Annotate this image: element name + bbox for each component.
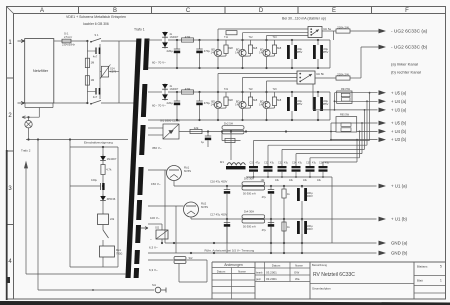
junction row1 cell2: [241, 39, 243, 41]
output +U3 (a): [379, 108, 387, 113]
svg-text:6k8: 6k8: [229, 98, 234, 102]
rectifier Gl2 4x1N4007: [164, 84, 166, 101]
svg-text:R94 5W: R94 5W: [341, 88, 351, 91]
wire output U3a row: [313, 109, 378, 111]
capacitor C12 plates: [196, 48, 202, 50]
svg-text:R95 5W: R95 5W: [340, 114, 350, 117]
svg-text:ZPD36: ZPD36: [107, 197, 116, 201]
wire output b riser: [360, 47, 362, 78]
junction row1 cb2: [317, 39, 319, 41]
transistor cell Q21: [217, 92, 219, 101]
svg-text:(b) rechter Kanal: (b) rechter Kanal: [391, 70, 421, 75]
output GND (a): [379, 241, 387, 246]
wire row2 post-rectifier: [168, 91, 330, 93]
capacitor C34 47u divider: [292, 166, 301, 168]
svg-text:Rö 5a: Rö 5a: [324, 27, 332, 31]
svg-text:+ U5 (a): + U5 (a): [391, 90, 407, 95]
wire tube2 out: [190, 217, 192, 219]
resistor R5a 220k: [336, 29, 350, 33]
junction gnd-b 214: [213, 252, 215, 254]
resistor R5b 220k: [336, 76, 350, 80]
junction Ua ladder bot: [334, 109, 336, 111]
svg-text:Änderungen: Änderungen: [224, 263, 243, 267]
svg-text:+ U3 (a): + U3 (a): [391, 108, 407, 113]
relay Re1: [100, 246, 115, 257]
svg-text:GW: GW: [294, 271, 299, 275]
plug St1: [155, 287, 161, 293]
wire GND rail a: [165, 242, 377, 244]
wire output U4a row: [335, 100, 378, 102]
mains input arrow N: [18, 102, 25, 105]
capacitor C15 100u 385V: [287, 45, 290, 59]
switch blade S1b: [91, 100, 101, 103]
wire delay bottom: [70, 266, 118, 268]
junction row2 rail 318: [317, 119, 319, 121]
wire row1 minus rail: [148, 67, 330, 69]
svg-text:6k8: 6k8: [277, 46, 282, 50]
svg-text:Blatt: Blatt: [417, 279, 423, 283]
wire tap bus 3: [281, 149, 283, 166]
svg-text:St1: St1: [152, 283, 157, 287]
svg-text:Datum: Datum: [272, 264, 281, 268]
svg-text:385V: 385V: [296, 50, 302, 54]
junction divider bot 253: [253, 176, 255, 178]
wire relay to bottom: [102, 257, 104, 267]
wire phase top: [54, 40, 62, 42]
output -UG2 (b): [361, 46, 379, 48]
junction plug run: [92, 289, 94, 291]
transistor cell Q22: [242, 92, 244, 101]
resistor R3 4k7: [101, 165, 105, 175]
junction row1 rail 177: [176, 67, 178, 69]
svg-text:Name: Name: [238, 269, 246, 273]
capacitor C21 220u: [176, 92, 178, 101]
svg-text:+ U1 (b): + U1 (b): [391, 217, 408, 222]
svg-text:Dr4 30H: Dr4 30H: [244, 210, 254, 214]
capacitor C1 X2: [95, 48, 97, 55]
svg-text:Datum: Datum: [217, 269, 226, 273]
zener diode D2 ZPD36: [100, 196, 106, 201]
svg-text:(a) linker Kanal: (a) linker Kanal: [391, 62, 418, 67]
transformer T1 primary winding bar: [125, 39, 141, 279]
junction divider bot 310: [309, 176, 311, 178]
output GND (b): [379, 251, 387, 256]
wire secondary row1 feed: [148, 39, 162, 41]
svg-text:+ U4 (b): + U4 (b): [391, 129, 407, 134]
fuse Si1: [62, 39, 71, 43]
junction: [86, 40, 88, 42]
wire delay top: [70, 146, 118, 148]
svg-text:4n7: 4n7: [93, 95, 98, 99]
svg-text:Bei 30...110 mA (stabiler up: Bei 30...110 mA (stabiler up): [282, 17, 326, 21]
choke Dr3 30H: [242, 182, 265, 186]
wire U1b bus: [191, 218, 377, 220]
wire switch to trafo: [101, 40, 137, 42]
wire output U3b row: [331, 139, 378, 141]
junction row2 cb2: [317, 91, 319, 93]
junction row2 cell2: [241, 91, 243, 93]
junction row2 rail 177: [176, 119, 178, 121]
title block: [212, 261, 446, 263]
wire output a: [322, 30, 336, 32]
transistor cell Q23: [266, 92, 268, 101]
junction delay rail: [69, 138, 71, 140]
wire U(b) ladder vertical: [330, 123, 332, 140]
junction gnd-b left: [190, 252, 192, 254]
junction gnd-a 302: [301, 242, 303, 244]
wire delay chain top: [102, 147, 104, 156]
capacitor C11c 100u 400V: [297, 221, 300, 234]
wire feed a2: [243, 32, 309, 34]
junction aux rail 2: [37, 138, 39, 140]
wire row1 post-rectifier: [168, 39, 330, 41]
wire row1 right drop: [329, 40, 331, 68]
wire d1 to r3: [102, 162, 104, 165]
svg-text:6k8: 6k8: [277, 98, 282, 102]
wire tap bus 2: [267, 145, 269, 166]
resistor group R95: [336, 117, 357, 132]
svg-text:6k8: 6k8: [229, 46, 234, 50]
svg-text:Rö 5b: Rö 5b: [317, 72, 325, 76]
wire feed b1: [218, 73, 297, 75]
svg-text:Gl2: Gl2: [155, 226, 160, 230]
wire output U5a row: [335, 92, 378, 94]
wire secondary row2 feed: [148, 91, 162, 93]
resistor Ra2: [226, 31, 237, 35]
svg-text:D: D: [259, 8, 264, 14]
svg-text:50-300 mA: 50-300 mA: [243, 192, 256, 196]
wire aux rail: [26, 139, 128, 141]
junction U1a c2: [270, 185, 272, 187]
svg-text:4n7: 4n7: [93, 55, 98, 59]
wire heater bottom run: [179, 281, 207, 283]
svg-text:S 1: S 1: [95, 33, 99, 37]
svg-text:47µ: 47µ: [262, 228, 267, 232]
capacitor C10c 100u 400V: [297, 188, 300, 201]
svg-text:1N4007: 1N4007: [107, 157, 117, 161]
capacitor C26 bulk: [317, 92, 319, 97]
wire feed b2: [243, 77, 298, 79]
svg-text:gepr: gepr: [256, 278, 261, 281]
wire box B drop: [312, 84, 314, 110]
junction divider bot 323: [322, 176, 324, 178]
svg-text:47R: 47R: [185, 35, 191, 39]
svg-text:60 - 70 V~: 60 - 70 V~: [152, 61, 166, 65]
svg-text:C17 47µ 450V: C17 47µ 450V: [210, 213, 227, 217]
junction 350V c1: [207, 130, 209, 132]
svg-text:470µ: 470µ: [204, 101, 211, 105]
svg-text:VDE1 + Schwenz Metallstub Ents: VDE1 + Schwenz Metallstub Entsprien: [66, 15, 126, 19]
wire S3 top tap: [148, 127, 163, 129]
capacitor C11c bulk: [301, 219, 303, 221]
tube rectifier Ro2 6C5S: [184, 202, 199, 217]
junction lamp: [27, 116, 29, 118]
wire heater out: [186, 259, 207, 261]
svg-text:Netzfilter: Netzfilter: [33, 68, 49, 73]
wire output U5b row: [331, 122, 378, 124]
capacitor C32 47u divider: [264, 166, 273, 168]
junction gnd-a 271: [270, 242, 272, 244]
wire tube2 gnd drop: [175, 206, 177, 253]
capacitor C7 1u: [207, 132, 209, 137]
svg-text:350 V~: 350 V~: [152, 146, 162, 150]
svg-text:220k 2W: 220k 2W: [337, 73, 349, 77]
wire S5 to tube2: [148, 205, 184, 207]
capacitor C25 bulk: [291, 92, 293, 97]
transistor cell Q11 rail junction: [217, 67, 219, 69]
junction U1b r: [283, 218, 285, 220]
svg-text:1M: 1M: [91, 78, 95, 82]
capacitor C11a plates: [224, 222, 230, 224]
transistor cell Q13: [266, 40, 268, 49]
capacitor C10c bulk: [301, 186, 303, 188]
capacitor C22 470u: [199, 92, 201, 101]
svg-text:385V: 385V: [322, 102, 328, 106]
svg-text:6C5S: 6C5S: [184, 169, 191, 173]
svg-text:1M: 1M: [91, 61, 95, 65]
resistor R2 1M: [85, 76, 89, 85]
capacitor C25 100u 385V: [287, 97, 290, 111]
svg-text:- UG2 6C33C (a): - UG2 6C33C (a): [391, 29, 428, 35]
svg-text:A: A: [40, 8, 44, 14]
junction gnd-a left: [173, 242, 175, 244]
netzfilter box: [25, 39, 54, 103]
capacitor C11b: [270, 219, 272, 223]
svg-text:50-300 mA: 50-300 mA: [243, 225, 256, 229]
junction tap bus 3: [364, 109, 366, 111]
svg-text:1µ: 1µ: [201, 140, 204, 144]
output +U1 (a): [379, 184, 387, 189]
svg-text:6k8: 6k8: [253, 46, 258, 50]
capacitor C11 220u: [176, 40, 178, 49]
wire heater left drop: [37, 140, 39, 291]
svg-text:F: F: [405, 8, 409, 14]
junction row1 c1: [176, 39, 178, 41]
capacitor C10a plates: [224, 189, 230, 191]
wire choke down: [230, 132, 232, 161]
svg-text:+ U3 (b): + U3 (b): [391, 137, 407, 142]
wire delay right rail: [117, 147, 119, 267]
output +U1 (b): [379, 217, 387, 222]
junction 350V mid: [285, 130, 287, 132]
filter rail mid: [99, 44, 101, 99]
transistor cell Q12: [242, 40, 244, 49]
resistor R7 on tap line: [222, 140, 241, 142]
wire S3 bottom tap: [148, 134, 163, 136]
svg-text:100µ: 100µ: [91, 178, 97, 182]
wire tap bus 5: [309, 158, 311, 166]
svg-text:140: 140: [211, 103, 216, 107]
svg-text:47µ: 47µ: [284, 161, 289, 164]
svg-text:140: 140: [211, 51, 216, 55]
relay contact Ro5b: [297, 71, 315, 84]
capacitor C16 100u 385V: [313, 45, 316, 59]
svg-text:Wa: Wa: [295, 277, 300, 281]
svg-text:Re1: Re1: [116, 248, 121, 252]
junction divider bot 268: [267, 176, 269, 178]
wire tube1 gnd drop: [164, 170, 166, 243]
output +U4 (a): [379, 99, 387, 104]
svg-text:Trafo 2: Trafo 2: [21, 149, 31, 153]
rectifier Gl2: [156, 230, 168, 239]
rectifier Gl3 B380: [163, 124, 179, 139]
wire tap bus 1: [253, 141, 255, 167]
wire output a tap: [333, 31, 335, 40]
junction tap bus 6: [356, 139, 358, 141]
svg-text:RV Netzteil 6C33C: RV Netzteil 6C33C: [313, 272, 355, 278]
svg-text:150 V~: 150 V~: [151, 182, 161, 186]
wire feed a1: [218, 28, 308, 30]
svg-text:03.2001: 03.2001: [266, 271, 277, 275]
junction row1 c2: [198, 39, 200, 41]
wire r4 to switch: [102, 225, 104, 231]
junction row2 c1: [176, 91, 178, 93]
svg-text:+ U1 (a): + U1 (a): [391, 184, 408, 189]
junction tap bus 1: [369, 92, 371, 94]
junction U1a r: [283, 185, 285, 187]
svg-text:E: E: [332, 8, 336, 14]
junction gnd-a 214: [213, 242, 215, 244]
wire cap branch: [70, 185, 100, 187]
junction row1 cb1: [291, 39, 293, 41]
wire S5 lower tap: [148, 223, 162, 225]
svg-text:140: 140: [235, 51, 240, 55]
wire row2 right drop: [329, 92, 331, 120]
wire tap bus 6: [322, 162, 324, 166]
wire neutral bottom: [54, 102, 88, 104]
svg-text:400V: 400V: [307, 194, 313, 198]
output +U5 (a): [379, 90, 387, 95]
junction Ua ladder mid: [334, 100, 336, 102]
junction Ub ladder bot: [330, 139, 332, 141]
mains input arrow L: [18, 40, 25, 43]
varistor VDR1: [100, 71, 101, 73]
svg-text:140: 140: [259, 51, 264, 55]
svg-text:kachler 6 GB 306: kachler 6 GB 306: [83, 22, 109, 26]
svg-text:220µ: 220µ: [167, 101, 174, 105]
svg-text:6,3 V~: 6,3 V~: [149, 246, 158, 250]
capacitor C35 47u divider: [306, 166, 315, 168]
wire GND rail b: [148, 252, 377, 254]
svg-text:47µ: 47µ: [312, 161, 317, 164]
wire filter stub: [24, 103, 26, 108]
heater dropper Gl3: [174, 257, 186, 260]
tube rectifier Ro1 6C5S: [167, 166, 182, 181]
svg-text:Trafo 1: Trafo 1: [134, 28, 145, 32]
output +U4 (b): [379, 129, 387, 134]
choke Dr2 5H: [222, 126, 244, 130]
capacitor C15 bulk: [291, 40, 293, 45]
junction tap r7: [221, 130, 223, 132]
junction tap bus 5: [359, 131, 361, 133]
lamp La1: [28, 117, 30, 120]
svg-text:Einschaltverzögerung: Einschaltverzögerung: [84, 141, 113, 145]
svg-text:1: 1: [440, 279, 442, 283]
wire U1a bus: [174, 185, 377, 187]
svg-text:Gl1 B380 C1500: Gl1 B380 C1500: [160, 119, 180, 123]
junction U1b c2: [270, 218, 272, 220]
junction row2 cell3: [265, 91, 267, 93]
svg-text:St2: St2: [189, 256, 193, 260]
junction Ub ladder mid: [330, 131, 332, 133]
wire switch2 to trafo: [101, 102, 137, 104]
wire S8 left: [26, 273, 126, 275]
svg-text:5: 5: [440, 265, 442, 269]
svg-text:+ U5 (b): + U5 (b): [391, 121, 407, 126]
wire plug run: [38, 289, 154, 291]
wire row2 minus rail: [148, 119, 330, 121]
svg-text:470µ: 470µ: [204, 49, 211, 53]
junction tap bus 4: [361, 122, 363, 124]
wire fuse to node: [71, 40, 87, 42]
svg-text:220µ: 220µ: [167, 49, 174, 53]
switch S2 delay contact: [103, 230, 109, 238]
filter rail right: [118, 41, 120, 103]
junction 350V choke: [245, 130, 247, 132]
junction gnd-b 271: [270, 252, 272, 254]
wire feed a3: [267, 35, 309, 37]
wire d2 to r4: [102, 202, 104, 214]
filter rail left: [86, 41, 88, 103]
svg-text:230V/50Hz: 230V/50Hz: [62, 43, 76, 47]
svg-text:47µ: 47µ: [256, 161, 261, 164]
wire gl2 stub up: [161, 224, 163, 230]
junction gnd-b 302: [301, 252, 303, 254]
resistor R1 1M: [85, 58, 89, 67]
wire gl2 stub down: [161, 239, 163, 243]
svg-text:Dr1: Dr1: [220, 160, 225, 164]
wire feed b3: [267, 80, 298, 82]
svg-text:03.2001: 03.2001: [266, 277, 277, 281]
svg-text:T12: T12: [249, 36, 254, 39]
svg-text:~: ~: [150, 237, 152, 241]
junction U1a c1: [226, 185, 228, 187]
resistor R6: [190, 129, 202, 133]
wire output b horiz: [315, 77, 336, 79]
wire tap bus 4: [295, 154, 297, 166]
wire S4 to tube1: [148, 169, 167, 171]
wire trafo2 riser: [24, 162, 27, 274]
capacitor C31 47u divider: [249, 166, 258, 168]
junction row2 cell1: [217, 91, 219, 93]
switch blade S1a: [91, 38, 101, 41]
wire r3 to node: [102, 175, 104, 197]
resistor R4 22k: [98, 214, 109, 225]
svg-text:47µ: 47µ: [270, 161, 275, 164]
svg-text:- UG2 6C33C (b): - UG2 6C33C (b): [391, 45, 428, 51]
svg-text:Dr2 5H: Dr2 5H: [224, 121, 233, 125]
wire heater loop left: [178, 264, 180, 283]
wire U(a) ladder vertical: [334, 93, 336, 110]
svg-text:385V: 385V: [296, 102, 302, 106]
capacitor C11b plates: [268, 222, 274, 224]
capacitor C11a 47u: [226, 219, 228, 223]
transistor cell Q22 rail junction: [241, 119, 243, 121]
junction row1 rail 199: [198, 67, 200, 69]
capacitor C2 X2: [95, 88, 97, 95]
svg-text:6,3 V~: 6,3 V~: [149, 268, 158, 272]
capacitor C7 plates: [205, 135, 211, 137]
winding tap arrow S6: [141, 227, 148, 230]
output -UG2 (a): [350, 30, 379, 32]
junction: [86, 102, 88, 104]
svg-text:C16 47µ 450V: C16 47µ 450V: [210, 180, 227, 184]
svg-text:T13: T13: [273, 36, 278, 39]
svg-text:T21: T21: [224, 88, 229, 91]
svg-text:Röhr. Anheizzeit bei 0,5 V~ Tr: Röhr. Anheizzeit bei 0,5 V~ Trennung: [205, 249, 255, 253]
junction divider bot 296: [295, 176, 297, 178]
junction gnd-b 284: [283, 252, 285, 254]
